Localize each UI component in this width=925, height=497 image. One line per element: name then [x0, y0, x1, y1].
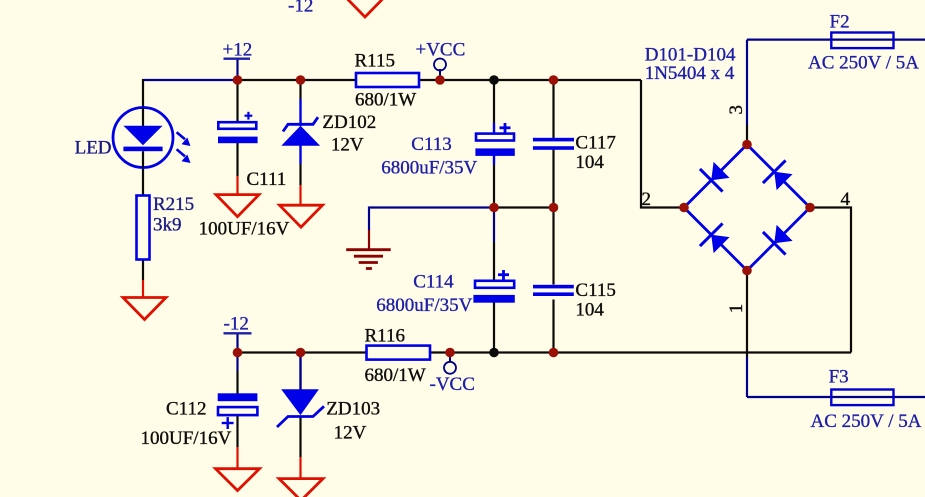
svg-text:+12: +12 — [223, 40, 253, 61]
node bridge left — [679, 203, 689, 213]
svg-text:F3: F3 — [829, 367, 849, 388]
wire C111 bottom lead — [236, 143, 238, 176]
wire +VCC port stem — [439, 69, 441, 80]
svg-text:12V: 12V — [334, 422, 367, 443]
wire earth ground stem — [368, 207, 370, 231]
svg-text:C114: C114 — [413, 272, 454, 293]
wire bridge edge top-right — [747, 145, 810, 208]
node bridge top — [742, 140, 752, 150]
wire C115 bottom lead — [552, 300, 554, 353]
svg-text:AC 250V / 5A: AC 250V / 5A — [808, 53, 919, 74]
svg-text:+VCC: +VCC — [416, 40, 466, 61]
svg-text:6800uF/35V: 6800uF/35V — [376, 295, 472, 316]
wire C112 top lead — [236, 353, 238, 372]
wire top rail black segment — [238, 79, 642, 81]
wire bridge edge left-top — [684, 145, 747, 208]
node bridge right — [805, 203, 815, 213]
wire C113 top lead — [493, 80, 495, 123]
node C115 bottom junction — [549, 348, 559, 358]
resistor R215 — [137, 196, 150, 260]
svg-text:104: 104 — [575, 299, 604, 320]
svg-text:-12: -12 — [288, 0, 313, 17]
node +12 junction — [233, 75, 243, 85]
ground under ZD103 — [279, 479, 323, 497]
zener diode ZD102 — [281, 117, 320, 146]
wire F3 AC line — [747, 396, 925, 398]
svg-text:100UF/16V: 100UF/16V — [199, 219, 290, 240]
wire C117 top lead — [552, 80, 554, 139]
resistor R115 — [356, 73, 419, 87]
svg-text:12V: 12V — [331, 134, 364, 155]
ground under R215 — [123, 298, 166, 320]
ground under C111 — [216, 195, 259, 217]
resistor R116 — [367, 346, 431, 360]
power port -VCC — [430, 362, 475, 395]
LED D? indicator — [113, 108, 191, 168]
wire mid rail black segment — [494, 206, 554, 208]
svg-text:-VCC: -VCC — [430, 374, 475, 395]
power port +12 — [223, 40, 253, 61]
wire C111 top lead — [236, 80, 238, 123]
node C113 top junction black — [489, 75, 499, 85]
wire bottom rail — [238, 351, 852, 353]
svg-text:LED: LED — [75, 138, 112, 159]
diode D upper-right — [763, 160, 796, 193]
svg-text:3k9: 3k9 — [153, 215, 182, 236]
wire ZD103 bottom lead — [299, 417, 301, 457]
ground under C112 — [216, 469, 260, 491]
svg-text:2: 2 — [642, 189, 652, 210]
wire mid rail navy segment from earth to C113 node — [369, 206, 494, 208]
capacitor C113 — [475, 123, 514, 156]
capacitor C117 — [533, 138, 574, 150]
node C113 bottom junction — [489, 203, 499, 213]
svg-text:4: 4 — [841, 189, 851, 210]
wire ZD102 bottom lead — [299, 146, 301, 165]
wire bridge edge bottom-right — [747, 208, 810, 271]
fuse F3 — [831, 390, 893, 406]
wire C115 top lead — [552, 208, 554, 285]
bridge rectifier D101-D104 — [679, 140, 815, 276]
svg-text:1: 1 — [726, 304, 747, 314]
node -12 junction — [233, 348, 243, 358]
wire ZD102 top lead — [299, 80, 301, 99]
zener diode ZD103 — [277, 389, 324, 427]
node -VCC junction — [445, 348, 455, 358]
svg-text:C113: C113 — [411, 134, 451, 155]
svg-text:1N5404 x 4: 1N5404 x 4 — [645, 63, 735, 84]
diode D lower-left — [700, 223, 733, 256]
svg-text:6800uF/35V: 6800uF/35V — [381, 158, 477, 179]
ground at top edge — [344, 0, 387, 17]
node ZD102 junction — [296, 75, 306, 85]
svg-text:3: 3 — [726, 105, 747, 115]
diode D lower-right — [763, 222, 796, 255]
capacitor C111 — [218, 112, 258, 143]
capacitor C112 — [218, 393, 258, 429]
node +VCC junction — [435, 75, 445, 85]
svg-text:AC 250V / 5A: AC 250V / 5A — [811, 411, 922, 432]
svg-text:R115: R115 — [355, 51, 395, 72]
capacitor C115 — [533, 285, 574, 296]
wire top rail navy segment — [143, 79, 238, 81]
svg-text:ZD103: ZD103 — [326, 398, 380, 419]
capacitor C114 — [473, 270, 514, 303]
node C117 top junction — [549, 75, 559, 85]
svg-text:C111: C111 — [247, 169, 287, 190]
svg-text:C117: C117 — [575, 133, 615, 154]
node bridge bottom — [742, 266, 752, 276]
wire ZD103 top lead — [299, 353, 301, 391]
wire C114 bottom lead — [493, 303, 495, 353]
earth ground — [346, 250, 391, 269]
wire node 2 corner from top rail to bridge left — [641, 80, 684, 208]
svg-text:100UF/16V: 100UF/16V — [141, 428, 232, 449]
wire C112 bottom lead — [236, 415, 238, 448]
ground under ZD102 — [280, 205, 323, 227]
wire bridge edge left-bottom — [684, 208, 747, 271]
svg-text:C115: C115 — [575, 280, 615, 301]
diode D upper-left — [700, 159, 733, 192]
svg-text:F2: F2 — [830, 12, 850, 33]
svg-text:R116: R116 — [365, 326, 405, 347]
wire R215 bottom lead — [142, 259, 144, 280]
node ZD103 junction — [296, 348, 306, 358]
wire LED vertical lead from top rail — [142, 79, 144, 109]
svg-text:680/1W: 680/1W — [355, 90, 416, 111]
wire bridge bottom lead pin 1 — [746, 271, 748, 358]
node C117 bottom junction — [549, 203, 559, 213]
svg-text:C112: C112 — [166, 398, 206, 419]
node C114 bottom junction black — [489, 348, 499, 358]
svg-text:R215: R215 — [153, 194, 194, 215]
wire C117 bottom lead — [552, 150, 554, 208]
power port -12 bottom — [224, 314, 252, 335]
fuse F2 — [831, 33, 893, 49]
wire +12 power stem — [236, 59, 238, 80]
wire C113 bottom lead — [493, 156, 495, 165]
svg-text:-12: -12 — [224, 314, 249, 335]
wire -VCC port stem — [449, 353, 451, 363]
svg-text:104: 104 — [575, 152, 604, 173]
wire C114 top lead — [493, 208, 495, 243]
svg-text:ZD102: ZD102 — [322, 112, 376, 133]
wire LED to R215 lead — [142, 167, 144, 196]
wire -12 power stem — [236, 334, 238, 353]
wire node 4 corner from bridge right to bottom rail — [810, 208, 851, 353]
wire F2 AC line — [747, 38, 925, 40]
svg-text:680/1W: 680/1W — [365, 365, 426, 386]
power port +VCC — [416, 40, 466, 71]
wire bridge top lead pin 3 — [746, 40, 748, 125]
